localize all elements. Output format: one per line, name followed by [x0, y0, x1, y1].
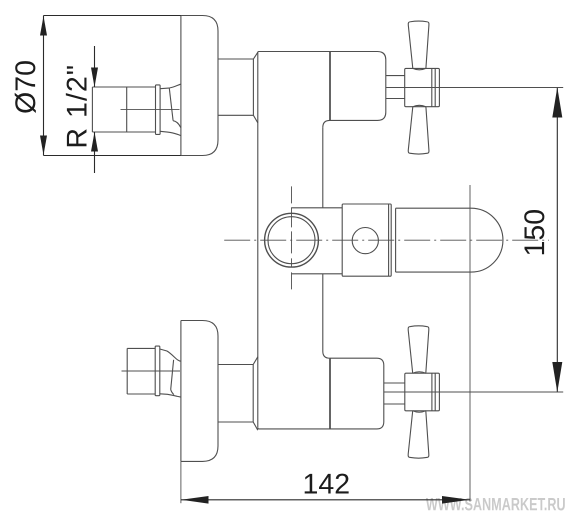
dim 150 arrow up: [552, 87, 562, 117]
riser right edge upper: [322, 127, 324, 207]
body column left edge: [257, 53, 259, 428]
handle bottom hub: [405, 373, 440, 411]
handle top centerline / 150 extension top: [386, 87, 563, 89]
label Ø70: [15, 61, 36, 113]
diverter body rect: [342, 204, 391, 276]
diverter knob circle: [352, 228, 378, 254]
dim 150 arrow down: [552, 362, 562, 392]
handle top upper blade: [408, 21, 429, 68]
main horizontal centerline: [224, 239, 549, 241]
dim Ø70 ext top: [44, 15, 181, 17]
label R 1/2": [66, 66, 87, 146]
spout cylinder bottom line: [292, 273, 343, 275]
label 142: [305, 474, 349, 494]
pipe top thread ring: [156, 85, 161, 134]
dim R1/2 arrow down: [91, 68, 98, 88]
section line bottom body: [329, 358, 331, 428]
handle bottom lower blade: [408, 411, 429, 458]
section line top body: [329, 52, 331, 120]
handle top hub: [405, 68, 440, 106]
dim 142 arrow right: [442, 496, 470, 504]
dim 150 line: [556, 88, 558, 392]
pipe bottom taper bell: [160, 349, 181, 361]
142 extension line left: [180, 461, 182, 503]
riser right edge lower: [323, 274, 330, 358]
label 150: [524, 210, 544, 254]
pipe top centerline: [121, 109, 180, 111]
valve body top outline: [258, 52, 386, 128]
handle top lower blade: [408, 107, 429, 154]
dim Ø70 arrow down: [40, 136, 47, 156]
dim R1/2 line lower: [94, 132, 96, 173]
spout vertical centerline: [291, 186, 293, 293]
handle bottom stem: [384, 383, 405, 404]
pipe bottom rect: [127, 348, 155, 394]
dim 142 line: [181, 499, 470, 501]
spout outlet outer circle: [265, 213, 319, 267]
142 extension line right: [469, 185, 471, 502]
spout capsule: [396, 208, 503, 272]
dim 142 arrow left: [181, 496, 208, 504]
pipe top rect: [92, 87, 155, 132]
diverter rib lines: [389, 204, 396, 276]
handle top hub ribs: [432, 69, 435, 107]
dim Ø70 arrow up: [40, 16, 47, 36]
spout cylinder top line: [292, 207, 343, 209]
valve body bottom outline: [258, 358, 384, 429]
dim R1/2 line upper: [94, 46, 96, 87]
handle bottom hub ribs: [432, 373, 435, 410]
dim Ø70 ext bottom: [44, 155, 181, 157]
dim Ø70 line: [43, 16, 45, 156]
handle bottom upper blade: [408, 326, 429, 373]
wall flange bottom: [181, 321, 218, 462]
pipe top taper bell: [160, 84, 181, 89]
spout outlet inner circle: [268, 217, 315, 264]
wall flange top: [181, 16, 218, 156]
handle top stem: [386, 76, 405, 99]
watermark WWW.SANMARKET.RU: [426, 498, 565, 511]
dim R1/2 arrow up: [91, 132, 98, 152]
neck top: [218, 52, 258, 123]
pipe bottom thread ring: [155, 346, 160, 396]
neck bottom: [218, 357, 258, 430]
pipe bottom centerline: [122, 370, 181, 372]
handle bottom centerline / 150 extension bottom: [384, 391, 563, 393]
